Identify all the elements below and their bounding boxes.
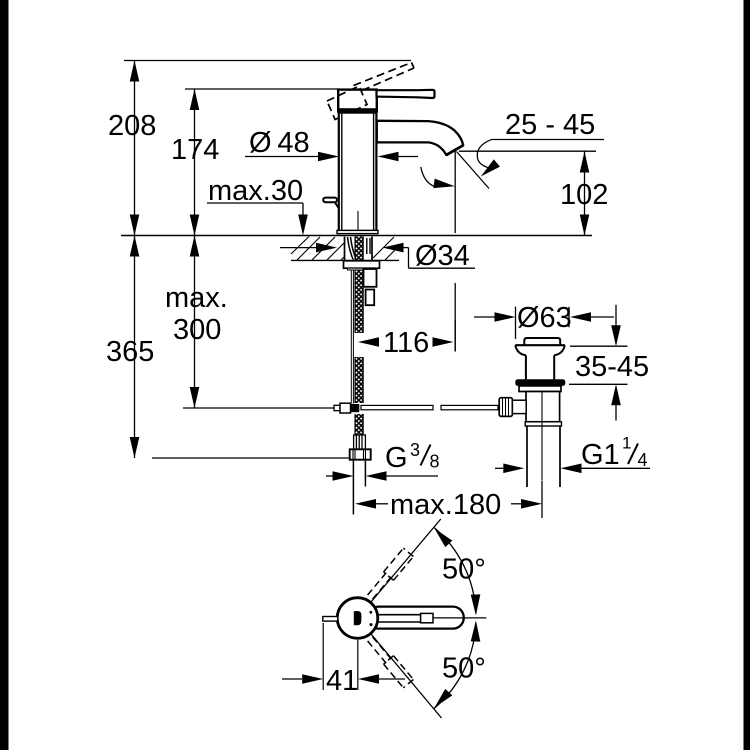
spout angle diagonal line [457, 152, 490, 189]
25-45 underline [492, 139, 604, 141]
spout outlet extension line (below deck) [454, 283, 456, 352]
svg-text:25 - 45: 25 - 45 [505, 109, 595, 141]
waste flange top [515, 344, 565, 346]
lower dashed lever (rod) [368, 637, 392, 664]
centre line right of spout [433, 617, 486, 619]
dimension 41 [282, 623, 405, 690]
body base flange [337, 230, 378, 233]
mounting nut under deck [344, 261, 380, 268]
pop-up pull rod (thin double line) [351, 269, 353, 404]
rod fitting at max.300 level [334, 403, 359, 413]
extension line cap top (174) [185, 88, 340, 90]
braided hose middle section [355, 357, 363, 403]
body centre line (cartridge) [357, 211, 359, 234]
waste flange sides [515, 345, 565, 355]
svg-text:300: 300 [173, 314, 221, 346]
spout outlet extension line (above deck) [454, 151, 456, 234]
faucet body [339, 113, 377, 231]
svg-text:50°: 50° [442, 653, 486, 685]
spout [377, 121, 463, 155]
dimension Ø34 leader [280, 248, 475, 269]
spout mouth edge [446, 145, 463, 155]
svg-text:4: 4 [638, 450, 648, 470]
upper dashed lever (rod) [368, 572, 392, 599]
dimension max.30 leader [207, 203, 303, 217]
waste body top flange [519, 386, 561, 392]
svg-text:50°: 50° [442, 554, 486, 586]
pop-up waste lift knob [524, 338, 560, 345]
pop-up rod knob on body left [323, 198, 338, 208]
right black border bar [744, 0, 750, 750]
hose ridged end section [354, 435, 366, 449]
svg-text:41: 41 [326, 665, 358, 697]
connection tube below nut [353, 460, 365, 515]
screw dot lower [370, 623, 373, 626]
svg-text:102: 102 [560, 179, 608, 211]
upper swing ray [371, 519, 441, 602]
lower dashed lever (paddle) [384, 656, 414, 688]
connector block 1 [364, 269, 377, 287]
faucet cap [338, 90, 377, 110]
lower swing ray [371, 634, 442, 718]
G3/8 label [385, 440, 440, 474]
dimension 35-45 [569, 305, 628, 421]
svg-text:G: G [385, 442, 408, 474]
rod guide right of hose in shank [367, 238, 370, 254]
dimension max.180 [376, 481, 542, 519]
dimension Ø48 [245, 156, 418, 158]
svg-text:Ø 48: Ø 48 [249, 127, 310, 159]
G1 1/4 label [581, 434, 648, 472]
svg-text:365: 365 [106, 336, 154, 368]
shank walls [345, 237, 373, 261]
pop-up waste horizontal rod (right piece) [441, 405, 498, 409]
svg-text:174: 174 [171, 134, 219, 166]
svg-text:35-45: 35-45 [575, 351, 649, 383]
nut lip [348, 268, 376, 270]
left black border bar [0, 0, 9, 750]
cap bottom black band [337, 109, 378, 113]
lower 50-degree arc [434, 623, 476, 709]
waste tailpipe [527, 426, 560, 487]
upper dashed lever (paddle) [384, 548, 414, 580]
braided hose lower section [355, 414, 363, 435]
pop-up waste horizontal rod (left piece) [361, 405, 433, 409]
braided hose upper section [355, 237, 363, 334]
svg-text:max.30: max.30 [208, 175, 303, 207]
cartridge D-hole [354, 611, 362, 625]
G3/8 thread arrows [326, 475, 438, 477]
dimension max.300 [183, 236, 334, 409]
svg-text:max.: max. [165, 282, 228, 314]
svg-text:Ø34: Ø34 [415, 240, 470, 272]
rubber gasket (black) [515, 379, 565, 386]
waste centre line [541, 392, 543, 480]
upper 50-degree arc [434, 527, 476, 613]
G1 1/4 arrows [495, 467, 650, 469]
svg-text:G1: G1 [581, 439, 620, 471]
dimension 116 [454, 320, 456, 352]
waste body collar [525, 422, 561, 426]
hose curves inside shank [348, 237, 356, 260]
dimension Ø63 [474, 307, 614, 339]
waste neck [526, 355, 554, 379]
spout swivel arc arrow [421, 167, 435, 187]
connector block 2 [366, 290, 375, 306]
svg-text:3: 3 [410, 440, 420, 460]
svg-text:8: 8 [430, 452, 440, 472]
svg-text:1: 1 [622, 434, 631, 453]
dimension 208 [134, 61, 136, 236]
spout inner slot lines [376, 615, 421, 622]
extension line top of raised handle (208) [124, 60, 411, 62]
svg-text:116: 116 [383, 327, 429, 359]
svg-text:max.180: max.180 [390, 489, 501, 521]
deck bottom line [291, 259, 399, 261]
deck hatch right [373, 237, 399, 260]
knurled clamp knob [499, 398, 512, 417]
dimension 174 [194, 89, 196, 236]
G3/8 hose nut [350, 449, 371, 459]
faucet circle (top view) [337, 598, 378, 639]
deck hatch left [291, 237, 344, 261]
screw dot upper [369, 611, 372, 614]
spout stadium outline [368, 607, 464, 629]
dashed raised lever [354, 63, 415, 91]
deck top line [121, 235, 592, 237]
dimension 102 top extension line [459, 150, 596, 152]
dimension 102 [584, 152, 586, 236]
aerator rectangle [421, 613, 433, 622]
dimension 365 [135, 236, 351, 459]
clamp connector cylinder [512, 400, 526, 413]
solid lever handle [377, 90, 435, 98]
waste body [526, 392, 560, 422]
svg-text:208: 208 [108, 110, 156, 142]
svg-text:Ø63: Ø63 [517, 302, 572, 334]
25-45 leader arc with arrowhead [477, 139, 492, 167]
body inner edge lines [342, 113, 374, 231]
dashed raised-handle cap (parallelogram) [327, 86, 367, 120]
pop-up rod tab (top view) [323, 617, 338, 622]
